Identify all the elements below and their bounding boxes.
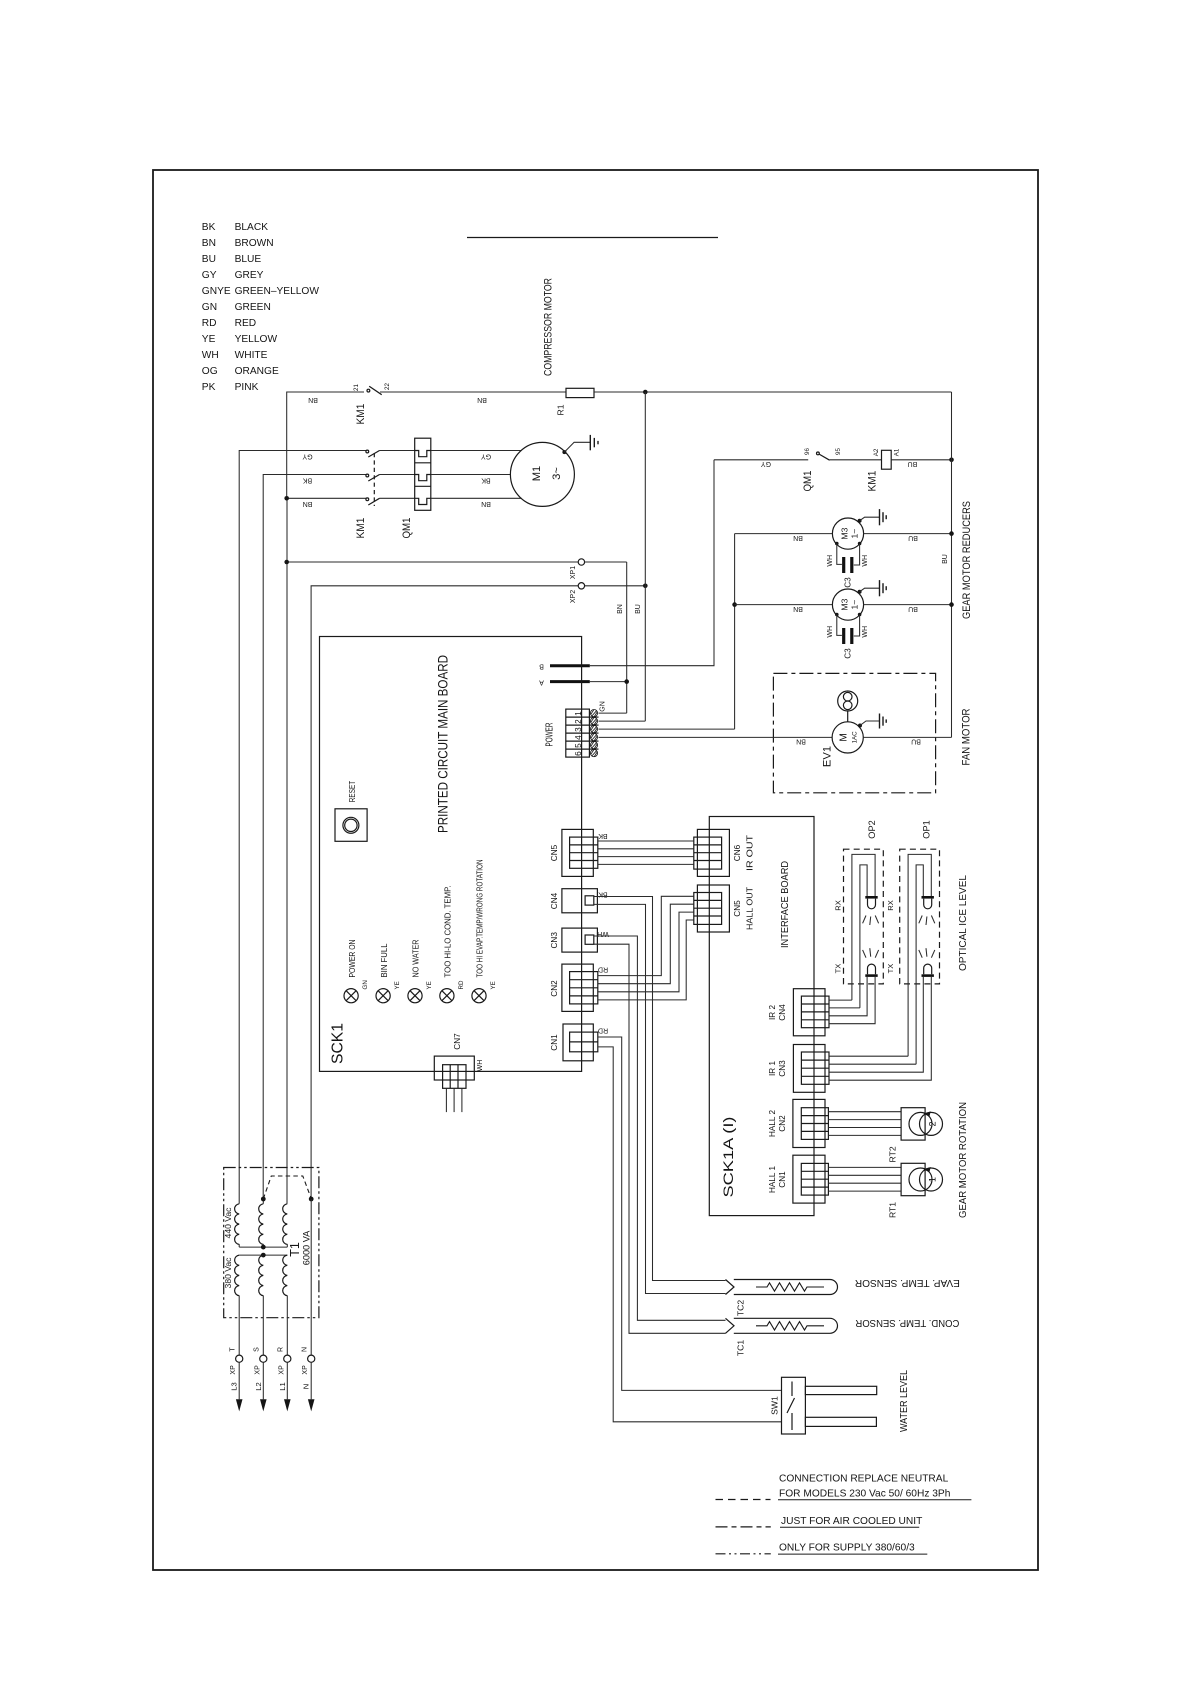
svg-text:RX: RX — [834, 900, 843, 911]
svg-text:96: 96 — [804, 448, 811, 455]
printed circuit main board SCK1 — [320, 637, 582, 1072]
lamp POWER ON (GN) — [344, 989, 358, 1003]
svg-text:WH: WH — [477, 1060, 484, 1072]
winding 440 Vac (upper coils) — [235, 1204, 288, 1245]
legend: wire colour codes — [202, 222, 320, 393]
svg-text:GNYE: GNYE — [202, 286, 231, 297]
wire: CN1 to SW1 (2 leads) — [598, 1037, 782, 1422]
water level switch SW1 — [782, 1377, 877, 1434]
svg-text:BN: BN — [303, 500, 313, 507]
temperature sensor TC2 (evaporator) — [726, 1280, 838, 1295]
svg-text:BN: BN — [308, 396, 318, 403]
terminal XP N — [302, 1347, 315, 1411]
svg-text:RED: RED — [235, 318, 257, 329]
fan blade symbol — [838, 691, 858, 722]
svg-text:95: 95 — [835, 448, 842, 455]
pushbutton RESET — [335, 809, 367, 842]
svg-text:3: 3 — [574, 727, 583, 732]
led TX (OP1) — [919, 948, 935, 958]
svg-text:WH: WH — [827, 555, 834, 567]
svg-text:N: N — [302, 1384, 311, 1389]
svg-text:EVAP. TEMP. SENSOR: EVAP. TEMP. SENSOR — [855, 1277, 960, 1288]
wire: R1 to right bus — [594, 391, 952, 393]
connector CN5 (main board) — [562, 829, 598, 876]
svg-text:N: N — [302, 1347, 309, 1352]
lamp TOO HI-LO COND. TEMP. (RD) — [440, 989, 454, 1003]
overload relay QM1 (3 pole thermal block) — [415, 438, 431, 510]
svg-text:6000 VA: 6000 VA — [302, 1230, 312, 1265]
svg-text:CN3: CN3 — [778, 1060, 787, 1077]
svg-text:TX: TX — [834, 964, 843, 974]
svg-text:GEAR MOTOR REDUCERS: GEAR MOTOR REDUCERS — [961, 501, 973, 619]
svg-text:CN7: CN7 — [453, 1033, 462, 1050]
svg-text:BN: BN — [202, 238, 216, 249]
connector CN2 (main board) — [562, 964, 598, 1011]
svg-text:L2: L2 — [254, 1382, 263, 1390]
wire: XP2 line from N bus — [311, 586, 578, 1199]
tap link (dashed) — [263, 1176, 311, 1199]
svg-text:NO WATER: NO WATER — [411, 940, 421, 978]
svg-text:TX: TX — [886, 964, 895, 974]
terminal XP S (L2) — [254, 1347, 267, 1412]
svg-text:SCK1A (I): SCK1A (I) — [721, 1117, 736, 1198]
ground at M1 — [562, 435, 598, 454]
svg-text:TC1: TC1 — [736, 1340, 746, 1356]
svg-text:CN5: CN5 — [550, 844, 559, 861]
svg-text:2: 2 — [928, 1121, 938, 1126]
svg-text:FAN MOTOR: FAN MOTOR — [961, 709, 973, 766]
motor M1 compressor — [510, 442, 574, 506]
wire: BU vertical (top wire to POWER pin2) — [644, 392, 646, 721]
svg-text:PRINTED CIRCUIT MAIN BOARD: PRINTED CIRCUIT MAIN BOARD — [436, 655, 451, 833]
wire: GY phase bus (vertical) — [239, 451, 366, 1204]
terminal XP R (L1) — [278, 1347, 291, 1411]
svg-text:BROWN: BROWN — [235, 238, 274, 249]
svg-text:1~: 1~ — [850, 529, 860, 539]
coil KM1 — [882, 450, 892, 469]
svg-text:CN4: CN4 — [778, 1004, 787, 1021]
svg-text:ONLY FOR SUPPLY 380/60/3: ONLY FOR SUPPLY 380/60/3 — [779, 1543, 915, 1554]
svg-text:OPTICAL ICE LEVEL: OPTICAL ICE LEVEL — [958, 875, 969, 971]
wire: BK phase bus (vertical) — [263, 475, 366, 1200]
connector CN4 (main board) — [562, 889, 598, 913]
lamp TOO HI EVAP.TEMP/WRONG ROTATION (YE) — [472, 989, 486, 1003]
svg-text:1: 1 — [574, 711, 583, 716]
svg-text:B: B — [539, 663, 544, 670]
motor EV1 fan — [832, 722, 863, 753]
svg-text:RD: RD — [202, 318, 217, 329]
svg-text:M3: M3 — [840, 598, 850, 610]
svg-text:BU: BU — [908, 460, 918, 467]
wires KM1 to QM1 — [380, 451, 415, 499]
wires CN7 leads — [446, 1088, 462, 1112]
svg-text:QM1: QM1 — [802, 471, 814, 492]
wires CN2 to CN5 hall out — [598, 896, 694, 1000]
svg-text:R: R — [278, 1347, 285, 1352]
svg-text:S: S — [254, 1347, 261, 1352]
lamp BIN FULL (YE) — [376, 989, 390, 1003]
wire: POWER pin3 to gear riser — [599, 728, 735, 730]
svg-text:3~: 3~ — [551, 467, 563, 480]
connector CN1 (interface, HALL 1) — [793, 1155, 829, 1203]
svg-text:HALL OUT: HALL OUT — [746, 887, 755, 930]
svg-text:CN2: CN2 — [550, 980, 559, 997]
wire: POWER pin2 stub — [599, 720, 646, 722]
svg-text:C3: C3 — [844, 577, 853, 588]
svg-text:GREEN–YELLOW: GREEN–YELLOW — [235, 286, 320, 297]
svg-text:RD: RD — [458, 980, 465, 989]
svg-text:COMPRESSOR MOTOR: COMPRESSOR MOTOR — [543, 278, 555, 376]
svg-text:GREEN: GREEN — [235, 302, 271, 313]
svg-text:GY: GY — [302, 453, 312, 460]
svg-text:GY: GY — [761, 460, 771, 467]
svg-text:BU: BU — [202, 254, 216, 265]
connector CN3 (main board) — [562, 928, 598, 952]
wires CN5 to CN6 — [598, 841, 694, 864]
interface board SCK1A (I) — [709, 817, 814, 1216]
svg-text:OG: OG — [202, 366, 218, 377]
connector CN7 (main board bottom) — [434, 1056, 474, 1088]
fan motor enclosure (air cooled unit) — [773, 673, 935, 792]
wire: QM1 95 line — [714, 459, 808, 461]
svg-text:GEAR MOTOR ROTATION: GEAR MOTOR ROTATION — [958, 1102, 969, 1218]
wire: CN4 to TC2 (2 leads) — [594, 897, 726, 1294]
svg-text:R1: R1 — [556, 404, 566, 415]
connector CN1 (main board) — [563, 1024, 598, 1061]
svg-text:RT1: RT1 — [888, 1202, 898, 1218]
svg-text:BU: BU — [942, 554, 949, 564]
svg-text:WATER LEVEL: WATER LEVEL — [899, 1370, 910, 1432]
svg-text:1: 1 — [928, 1177, 938, 1182]
ground at EV1 — [858, 714, 886, 729]
contact KM1 21-22 (NC aux) — [367, 386, 382, 395]
svg-text:JUST FOR AIR COOLED UNIT: JUST FOR AIR COOLED UNIT — [781, 1516, 922, 1527]
svg-text:M1: M1 — [531, 466, 543, 482]
svg-text:BN: BN — [793, 534, 803, 541]
svg-text:440 Vac: 440 Vac — [223, 1207, 233, 1239]
svg-text:OP1: OP1 — [922, 820, 932, 838]
svg-text:C3: C3 — [844, 648, 853, 659]
svg-text:SCK1: SCK1 — [330, 1023, 347, 1064]
supply leads to XP terminals — [239, 1199, 311, 1355]
wire: POWER pin1 to fuse A node — [599, 712, 627, 714]
led TX (OP2) — [863, 948, 879, 958]
svg-text:BN: BN — [481, 500, 491, 507]
wire: BN phase from bus to KM1 — [287, 497, 366, 499]
wire: POWER pin4 to EV1 — [599, 736, 833, 738]
wire: BN bus down to transformer — [286, 498, 288, 1204]
svg-text:21: 21 — [353, 384, 360, 391]
svg-text:CN2: CN2 — [778, 1115, 787, 1132]
winding links — [239, 1244, 287, 1255]
pin numbers 1-6 — [574, 711, 583, 756]
transformer T1 — [223, 1168, 319, 1318]
connector CN4 (interface, IR 2) — [793, 989, 829, 1036]
optical sensor OP1 — [829, 820, 940, 1080]
svg-text:GN: GN — [362, 980, 369, 989]
svg-text:2: 2 — [574, 719, 583, 724]
wire: fuse B to QM1 95 riser — [590, 460, 714, 666]
svg-text:22: 22 — [384, 383, 391, 390]
svg-text:BLUE: BLUE — [235, 254, 262, 265]
legend: line styles — [716, 1474, 972, 1555]
svg-text:GN: GN — [202, 302, 217, 313]
svg-text:XP: XP — [302, 1365, 309, 1375]
svg-text:IR 1: IR 1 — [768, 1061, 777, 1076]
svg-text:BLACK: BLACK — [235, 222, 269, 233]
svg-text:1~: 1~ — [850, 600, 860, 610]
connector CN2 (interface, HALL 2) — [793, 1099, 829, 1147]
svg-text:M3: M3 — [840, 527, 850, 539]
svg-text:WH: WH — [827, 626, 834, 638]
contactor KM1 main poles — [366, 450, 380, 506]
svg-text:BU: BU — [908, 534, 918, 541]
svg-text:ORANGE: ORANGE — [235, 366, 279, 377]
svg-text:RT2: RT2 — [888, 1146, 898, 1162]
wires QM1 to M1 — [431, 451, 522, 499]
lamp NO WATER (YE) — [408, 989, 422, 1003]
wire: BN vertical to POWER pin1 via fuse A node — [626, 562, 628, 713]
svg-text:GN: GN — [600, 701, 607, 712]
svg-text:WH: WH — [862, 555, 869, 567]
wire: right BU bus — [951, 392, 953, 737]
temperature sensor TC1 (condenser) — [726, 1318, 838, 1333]
svg-text:1AC: 1AC — [851, 731, 858, 744]
wire: BN top feed from bus to KM1 21 — [287, 392, 364, 498]
svg-text:WHITE: WHITE — [235, 350, 268, 361]
connector CN3 (interface, IR 1) — [793, 1045, 829, 1093]
wire: fuse A to node — [590, 681, 627, 683]
connector pin XP1 — [578, 559, 584, 565]
svg-text:KM1: KM1 — [867, 471, 879, 492]
svg-text:COND. TEMP. SENSOR: COND. TEMP. SENSOR — [855, 1317, 959, 1328]
fuse B — [550, 664, 590, 667]
svg-text:SW1: SW1 — [770, 1396, 780, 1415]
svg-text:YE: YE — [202, 334, 216, 345]
led RX (OP1) — [908, 854, 931, 1064]
svg-text:GY: GY — [481, 453, 491, 460]
svg-text:BN: BN — [796, 738, 806, 745]
svg-text:BN: BN — [793, 605, 803, 612]
capacitor C3 (top M3) — [827, 542, 869, 588]
svg-text:L3: L3 — [230, 1382, 239, 1390]
svg-text:BK: BK — [598, 832, 608, 839]
svg-text:BK: BK — [303, 476, 313, 483]
svg-text:YE: YE — [394, 981, 401, 989]
svg-text:YE: YE — [426, 981, 433, 989]
rotation sensor RT2 — [828, 1108, 942, 1163]
motor M3 gear reducer (bottom) — [735, 589, 954, 620]
optical sensor OP2 — [829, 820, 883, 1023]
ground at M3 top — [858, 509, 887, 525]
connector pin XP2 — [578, 583, 584, 589]
connector CN5 (interface, HALL OUT) — [694, 885, 730, 932]
svg-text:XP: XP — [278, 1365, 285, 1375]
svg-text:BN: BN — [477, 396, 487, 403]
svg-text:EV1: EV1 — [822, 746, 834, 767]
svg-text:A: A — [539, 678, 544, 685]
svg-text:BK: BK — [481, 476, 491, 483]
svg-text:RD: RD — [598, 1027, 608, 1034]
svg-text:QM1: QM1 — [401, 518, 413, 539]
wire: gear motor left riser to POWER pin3 — [734, 534, 736, 730]
svg-text:M: M — [839, 733, 850, 742]
svg-text:BN: BN — [617, 604, 624, 614]
svg-text:HALL 1: HALL 1 — [768, 1166, 777, 1193]
svg-text:CN3: CN3 — [550, 932, 559, 949]
svg-text:CN1: CN1 — [550, 1034, 559, 1051]
wire: EV1 to BU bus — [863, 736, 951, 738]
wire: CN3 to TC1 (2 leads) — [594, 936, 726, 1333]
connector POWER (screw terminal 1-6) — [566, 709, 599, 757]
svg-text:BK: BK — [202, 222, 216, 233]
svg-text:T1: T1 — [288, 1242, 302, 1257]
svg-text:380 Vac: 380 Vac — [223, 1257, 233, 1289]
svg-text:CN1: CN1 — [778, 1171, 787, 1188]
svg-text:T: T — [230, 1347, 237, 1352]
svg-text:TC2: TC2 — [736, 1300, 746, 1316]
junction node BN bus — [284, 496, 289, 501]
svg-text:CONNECTION REPLACE NEUTRAL: CONNECTION REPLACE NEUTRAL — [779, 1474, 949, 1485]
motor M3 gear reducer (top) — [735, 518, 954, 549]
terminal XP T (L3) — [230, 1347, 243, 1412]
svg-text:PINK: PINK — [235, 382, 259, 393]
svg-text:CN5: CN5 — [733, 900, 742, 917]
led RX (OP2) — [852, 854, 875, 1008]
svg-text:FOR MODELS 230 Vac 50/ 60: FOR MODELS 230 Vac 50/ 60Hz 3Ph — [779, 1489, 950, 1500]
svg-text:BU: BU — [911, 738, 921, 745]
svg-text:4: 4 — [574, 735, 583, 740]
contact QM1 95-96 — [817, 452, 830, 460]
svg-text:TOO HI EVAP.TEMP/WRONG ROTATIO: TOO HI EVAP.TEMP/WRONG ROTATION — [475, 860, 485, 978]
svg-text:IR 2: IR 2 — [768, 1005, 777, 1020]
svg-text:TOO HI-LO COND. TEMP.: TOO HI-LO COND. TEMP. — [443, 886, 453, 978]
svg-text:IR OUT: IR OUT — [746, 835, 755, 871]
svg-text:RESET: RESET — [347, 780, 357, 802]
svg-text:HALL 2: HALL 2 — [768, 1110, 777, 1137]
connector CN6 (interface, IR OUT) — [694, 829, 730, 876]
junction node on top wire — [643, 390, 648, 395]
svg-text:6: 6 — [574, 751, 583, 756]
wire: XP1 line from BN bus — [287, 561, 579, 563]
svg-text:YE: YE — [490, 981, 497, 989]
svg-text:RD: RD — [598, 966, 608, 973]
svg-text:POWER: POWER — [545, 723, 556, 747]
title underline — [467, 237, 718, 239]
svg-text:WH: WH — [202, 350, 219, 361]
svg-text:YELLOW: YELLOW — [235, 334, 278, 345]
svg-text:OP2: OP2 — [867, 820, 877, 838]
resistor R1 — [566, 388, 594, 397]
svg-text:XP: XP — [254, 1365, 261, 1375]
svg-text:CN4: CN4 — [550, 892, 559, 909]
svg-text:KM1: KM1 — [355, 404, 367, 425]
svg-text:WH: WH — [862, 626, 869, 638]
svg-text:GREY: GREY — [235, 270, 264, 281]
winding 380 Vac (lower coils) — [235, 1255, 288, 1296]
svg-text:A1: A1 — [893, 448, 900, 456]
svg-text:A2: A2 — [873, 448, 880, 456]
svg-text:5: 5 — [574, 743, 583, 748]
svg-text:L1: L1 — [278, 1382, 287, 1390]
svg-text:BIN FULL: BIN FULL — [379, 943, 389, 977]
svg-text:RX: RX — [886, 900, 895, 911]
svg-text:GY: GY — [202, 270, 217, 281]
svg-text:CN6: CN6 — [733, 844, 742, 861]
wire: top wire KM1 22 to R1 — [380, 391, 566, 393]
svg-text:XP1: XP1 — [570, 566, 577, 579]
svg-text:POWER ON: POWER ON — [347, 940, 357, 978]
fuse A — [550, 680, 590, 683]
svg-text:INTERFACE BOARD: INTERFACE BOARD — [780, 861, 791, 948]
svg-text:PK: PK — [202, 382, 216, 393]
capacitor C3 (bottom M3) — [827, 613, 869, 659]
svg-text:KM1: KM1 — [355, 518, 367, 539]
rotation sensor RT1 — [828, 1163, 942, 1218]
svg-text:BU: BU — [908, 605, 918, 612]
svg-text:XP: XP — [230, 1365, 237, 1375]
ground at M3 bottom — [858, 580, 887, 596]
svg-text:BU: BU — [635, 604, 642, 614]
svg-text:XP2: XP2 — [570, 590, 577, 603]
